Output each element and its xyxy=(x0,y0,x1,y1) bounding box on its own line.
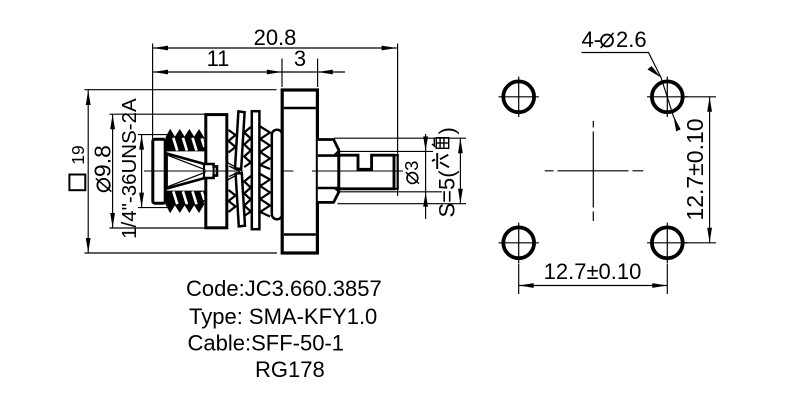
arrow 3 outside right xyxy=(318,70,333,75)
label underline and leader xyxy=(582,53,662,78)
dimension square-19: extension top xyxy=(85,89,277,91)
dimension dia3: extension bottom xyxy=(337,191,442,193)
dimension dia3: extension top xyxy=(340,150,433,152)
glyph liu xyxy=(432,153,449,169)
crosshair bottom-right xyxy=(647,223,687,263)
svg-text:Code:JC3.660.3857: Code:JC3.660.3857 xyxy=(186,276,382,301)
arrow 20.8 left xyxy=(153,46,168,51)
dimension 12.7 vertical: extension bottom xyxy=(685,242,716,244)
center cross vertical xyxy=(592,121,594,221)
hole bottom-right xyxy=(652,227,683,258)
arrow 11 right xyxy=(267,70,282,75)
dimension dia9.8 line xyxy=(112,114,114,228)
serration teeth behind lock washer top xyxy=(229,130,236,212)
dimension thread: extension bottom xyxy=(138,207,167,209)
funnel inner line bottom xyxy=(168,172,205,186)
glyph jiao xyxy=(432,138,449,149)
arrow 19 bottom xyxy=(86,238,91,253)
dimension S=5 line xyxy=(459,138,461,204)
crosshair top-left xyxy=(499,77,539,117)
hex nut body xyxy=(318,140,339,203)
extension line right (pin end) xyxy=(397,44,399,197)
dimension 12.7 vertical: extension top xyxy=(685,96,716,98)
pin end band xyxy=(394,155,398,189)
svg-text:4-: 4- xyxy=(582,27,602,52)
text S=5(hex) rotated with CJK glyphs xyxy=(432,127,460,217)
flange inner line top xyxy=(284,107,316,109)
thread bottom band white slits xyxy=(173,191,204,204)
hole top-right xyxy=(652,81,683,112)
contact cone tip lines between plates xyxy=(228,163,243,181)
crosshair bottom-left xyxy=(499,223,539,263)
leader second arrow from below xyxy=(674,117,681,132)
leader tail below xyxy=(674,117,680,130)
star washer teeth right xyxy=(260,127,270,217)
flange plate xyxy=(282,90,317,253)
svg-text:3: 3 xyxy=(401,161,422,171)
dimension thread line xyxy=(141,135,143,208)
dimension dia9.8: extension top xyxy=(110,113,206,115)
arrow 9.8 top xyxy=(110,114,115,129)
arrow thread top xyxy=(139,135,144,150)
text dia9.8 rotated xyxy=(90,145,116,191)
arrow S top xyxy=(458,138,463,153)
center cross horizontal xyxy=(545,170,644,172)
arrow 11 left xyxy=(153,70,168,75)
extension line left (mating face) xyxy=(152,44,154,140)
arrow dia3 top (outside pointing down) xyxy=(423,136,428,151)
arrow 12.7v top xyxy=(707,97,712,112)
dimension square-19: extension bottom xyxy=(85,252,278,254)
svg-text:12.7±0.10: 12.7±0.10 xyxy=(544,259,642,284)
svg-text:9.8: 9.8 xyxy=(90,145,116,177)
pin with slot xyxy=(339,155,394,189)
arrow thread bottom xyxy=(139,193,144,208)
dimension 12.7 horizontal line xyxy=(519,285,668,287)
dimension 12.7 horizontal: extension right xyxy=(666,264,668,295)
funnel tip divider xyxy=(213,166,215,175)
arrow 12.7v bottom xyxy=(707,228,712,243)
svg-text:Cable:SFF-50-1: Cable:SFF-50-1 xyxy=(188,331,345,356)
washer plate xyxy=(206,115,227,228)
svg-text:RG178: RG178 xyxy=(255,357,325,382)
dimension dia9.8: extension bottom xyxy=(110,227,206,229)
dimension S=5: extension top xyxy=(334,137,466,139)
thread top band white slits xyxy=(173,138,204,151)
svg-text:3: 3 xyxy=(294,46,306,71)
thread top band crest outline xyxy=(167,132,204,140)
lock washer tilted bottom xyxy=(236,173,245,226)
dimension 12.7 vertical line xyxy=(709,97,711,243)
text dia3 rotated xyxy=(401,161,422,184)
hole top-left xyxy=(503,81,534,112)
leader diagonal through hole xyxy=(661,78,674,117)
hex chamfer bottom xyxy=(334,188,339,192)
dimension 20.8 line xyxy=(153,47,397,49)
lock washer tilted top xyxy=(235,111,245,169)
arrow 12.7h left xyxy=(519,283,534,288)
text 12.7 vertical rotated xyxy=(682,118,708,220)
crosshair top-right xyxy=(647,77,687,117)
svg-text:20.8: 20.8 xyxy=(254,25,297,50)
arrow dia3 bottom (outside pointing up) xyxy=(423,192,428,207)
hex flat line top xyxy=(318,154,339,157)
thread bottom band filled xyxy=(165,191,205,211)
female contact funnel xyxy=(167,154,217,189)
dimension S=5: extension bottom xyxy=(338,203,467,205)
centerline axis xyxy=(144,170,403,172)
star washer teeth left xyxy=(244,127,251,216)
dimension square-19 line xyxy=(87,90,89,253)
svg-text:2.6: 2.6 xyxy=(616,27,647,52)
arrow 12.7h right xyxy=(652,283,667,288)
funnel pin divider xyxy=(203,164,205,178)
arrow 20.8 right xyxy=(382,46,397,51)
funnel inner line top xyxy=(168,156,205,170)
gasket capsule xyxy=(272,130,282,219)
arrow 19 top xyxy=(86,90,91,105)
thread bottom band crest outline xyxy=(167,203,204,211)
leader arrow on circle top xyxy=(648,66,662,78)
svg-text:11: 11 xyxy=(207,46,230,71)
dimension 11 / 3 line xyxy=(153,71,345,73)
extension line flange right xyxy=(317,59,319,88)
flange inner line bottom xyxy=(284,233,316,235)
text 1/4-36UNS-2A rotated xyxy=(118,98,141,239)
dimension 12.7 horizontal: extension left xyxy=(518,264,520,295)
svg-text:1/4"-36UNS-2A: 1/4"-36UNS-2A xyxy=(118,98,141,239)
thread top band filled xyxy=(165,132,205,152)
dimension dia3 line xyxy=(425,134,427,219)
rim cap at mating face xyxy=(153,139,165,203)
svg-text:12.7±0.10: 12.7±0.10 xyxy=(682,118,708,220)
arrow 9.8 bottom xyxy=(110,213,115,228)
svg-text:Type: SMA-KFY1.0: Type: SMA-KFY1.0 xyxy=(189,304,377,329)
svg-text:): ) xyxy=(435,127,460,134)
extension line flange left xyxy=(281,59,283,88)
svg-text:19: 19 xyxy=(68,145,88,164)
hex chamfer top xyxy=(334,151,339,156)
text square19 rotated xyxy=(68,145,88,190)
svg-text:S=5(: S=5( xyxy=(435,170,460,218)
dimension thread: extension top xyxy=(138,134,167,136)
hex flat line bottom xyxy=(318,187,339,190)
hole bottom-left xyxy=(503,227,534,258)
star washer plate xyxy=(252,111,260,229)
arrow S bottom xyxy=(458,189,463,204)
